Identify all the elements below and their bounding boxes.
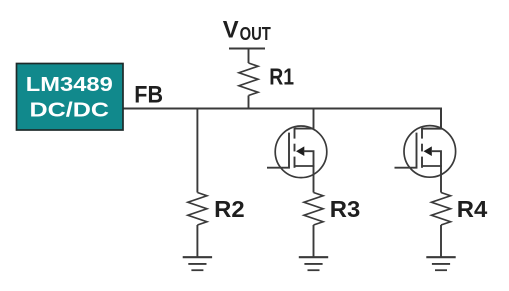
svg-text:R3: R3 xyxy=(330,196,361,222)
svg-text:R4: R4 xyxy=(457,196,488,222)
svg-text:R2: R2 xyxy=(214,196,245,222)
svg-text:OUT: OUT xyxy=(240,23,272,44)
svg-text:V: V xyxy=(223,17,239,44)
svg-text:LM3489: LM3489 xyxy=(26,73,113,96)
svg-text:R1: R1 xyxy=(269,64,294,90)
svg-text:DC/DC: DC/DC xyxy=(30,99,110,122)
svg-text:FB: FB xyxy=(134,82,163,109)
